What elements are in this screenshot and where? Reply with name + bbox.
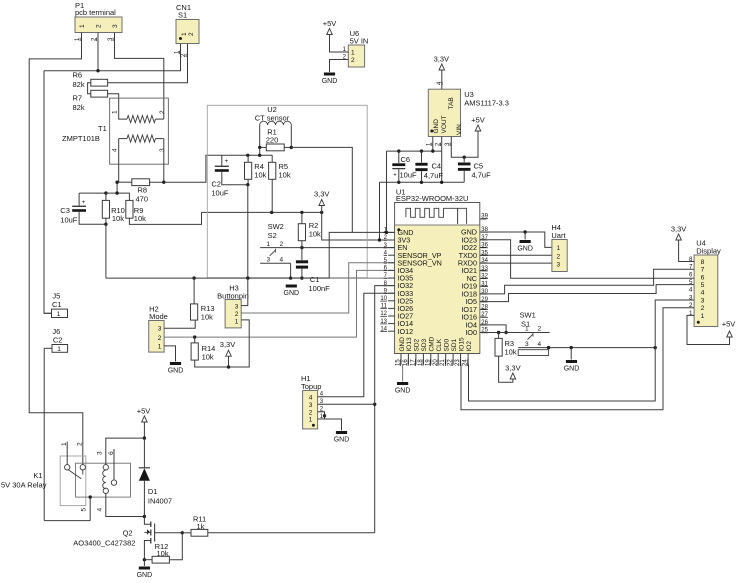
wire R8 left node xyxy=(115,181,131,184)
svg-text:3,3V: 3,3V xyxy=(671,225,686,234)
wire U3 VOUT pin2 down to 3.3V bus xyxy=(441,137,443,183)
wire +5V branch to relay coil pin3 xyxy=(106,438,145,464)
svg-text:10uF: 10uF xyxy=(400,171,418,180)
wire pin38 GND to H4 pin1 xyxy=(480,230,552,247)
power 3.3V arrow mid xyxy=(314,190,329,213)
wire U6 pin2 to GND xyxy=(330,60,349,73)
svg-text:IO0: IO0 xyxy=(465,328,477,337)
svg-text:C2: C2 xyxy=(211,180,221,189)
resistor R14 10k xyxy=(191,320,249,369)
wire P1 pin1 to relay (left vertical) xyxy=(29,42,83,465)
resistor R10 10k xyxy=(102,193,125,224)
wire IO32 vertical to H1 pin3 and R11 xyxy=(373,286,395,533)
svg-text:Display: Display xyxy=(696,247,721,256)
capacitor C3 10uF xyxy=(60,193,106,224)
wire R1 left to sensor node xyxy=(246,147,261,157)
svg-text:4: 4 xyxy=(97,508,104,512)
svg-text:8: 8 xyxy=(701,259,705,266)
connector J5 C1 xyxy=(44,292,68,319)
svg-text:SD2: SD2 xyxy=(414,338,421,351)
svg-text:GND: GND xyxy=(564,366,580,373)
svg-text:1: 1 xyxy=(181,32,188,36)
power +5V arrow right of U4 xyxy=(722,320,736,338)
svg-text:10k: 10k xyxy=(279,171,291,180)
ground below S2 xyxy=(286,285,297,288)
svg-text:10k: 10k xyxy=(254,171,266,180)
svg-text:4: 4 xyxy=(112,148,119,152)
svg-text:4: 4 xyxy=(309,394,313,401)
svg-text:2: 2 xyxy=(557,253,561,260)
ground below U1 xyxy=(397,382,408,385)
svg-text:3: 3 xyxy=(235,303,239,310)
svg-text:C3: C3 xyxy=(60,206,70,215)
wire IO33 to H1 pin4 xyxy=(318,293,395,397)
svg-text:1: 1 xyxy=(351,50,355,57)
svg-text:82k: 82k xyxy=(73,103,85,112)
wire IO5 to U4 pin5 xyxy=(480,285,694,302)
svg-text:TAB: TAB xyxy=(448,97,455,109)
svg-text:7: 7 xyxy=(701,267,705,274)
svg-text:+: + xyxy=(393,173,397,179)
svg-text:5: 5 xyxy=(689,279,693,286)
svg-text:4: 4 xyxy=(538,341,542,348)
svg-text:5: 5 xyxy=(701,282,705,289)
wire U3 GND pin1 to cap bus xyxy=(432,137,434,152)
wire H3 pin3 up to GND line xyxy=(241,278,248,306)
ground below H1 xyxy=(336,431,347,434)
svg-text:1: 1 xyxy=(57,311,61,318)
connector P1 pcb terminal xyxy=(75,1,122,42)
svg-text:3,3V: 3,3V xyxy=(505,364,520,373)
resistor R2 10k xyxy=(298,212,321,247)
wire H1 pins 1-2 to GND xyxy=(318,412,342,431)
connector U4 Display xyxy=(689,239,721,327)
wire U4 pin3 to SW1 net and IO2 xyxy=(469,300,695,401)
svg-text:10k: 10k xyxy=(112,214,124,223)
capacitor C6 10uF xyxy=(392,151,417,182)
wire CN1 pin2 to R6 xyxy=(108,50,188,83)
svg-text:Mode: Mode xyxy=(149,312,168,321)
component outline U2 CT sensor box xyxy=(207,105,367,277)
module U1 ESP32-WROOM-32U xyxy=(395,188,480,354)
connector H3 Buttonpin xyxy=(217,283,249,328)
svg-text:470: 470 xyxy=(136,195,149,204)
wire P1 pin2 net with junction xyxy=(44,42,181,313)
svg-text:10uF: 10uF xyxy=(211,189,229,198)
power 3.3V arrow below R3 xyxy=(505,364,520,380)
svg-text:4,7uF: 4,7uF xyxy=(472,171,492,180)
svg-text:1: 1 xyxy=(309,417,313,424)
svg-text:3: 3 xyxy=(97,451,104,455)
resistor R7 82k xyxy=(73,90,108,112)
wire P1 pin3 to T1 pin2 xyxy=(115,42,164,119)
svg-text:5: 5 xyxy=(80,508,87,512)
wire relay common junction down xyxy=(89,495,92,520)
wire T1 pin3 down xyxy=(163,164,165,182)
svg-text:D1: D1 xyxy=(148,487,158,496)
wire sensor divider node y193 xyxy=(79,191,129,200)
ground below H2 xyxy=(170,362,181,365)
svg-text:1: 1 xyxy=(79,24,86,28)
capacitor C4 4.7uF xyxy=(415,151,443,182)
junction R10 bottom xyxy=(104,223,107,226)
svg-text:5V 30A Relay: 5V 30A Relay xyxy=(1,481,47,490)
svg-text:GND: GND xyxy=(334,437,350,444)
wire IO0 row to SW1 xyxy=(480,320,550,334)
svg-text:SD0: SD0 xyxy=(444,338,451,351)
svg-text:Q2: Q2 xyxy=(123,529,133,538)
svg-text:GND: GND xyxy=(322,78,338,85)
wire U4 pin1 to +5V xyxy=(687,315,730,344)
svg-text:R8: R8 xyxy=(138,186,148,195)
wire IO35 row xyxy=(329,277,394,279)
wire R8 right node to C2 loop xyxy=(150,155,273,184)
svg-text:3: 3 xyxy=(701,297,705,304)
svg-text:S1: S1 xyxy=(178,11,187,20)
wire R11 to IO32 net xyxy=(208,532,375,534)
svg-text:SD3: SD3 xyxy=(421,338,428,351)
power 3.3V arrow near R14 xyxy=(220,340,235,367)
wire H3 pin2 to ESP32 SENSOR_VN xyxy=(241,263,394,313)
svg-text:AO3400_C427382: AO3400_C427382 xyxy=(73,539,135,548)
svg-text:CMD: CMD xyxy=(429,336,436,351)
wire H2 pin2 to ESP32 IO34 xyxy=(164,270,395,338)
wire EN row to ESP32 pin3 xyxy=(300,246,394,249)
svg-text:+5V: +5V xyxy=(722,320,736,329)
svg-text:3: 3 xyxy=(159,148,166,152)
svg-text:3: 3 xyxy=(557,261,561,268)
svg-text:1: 1 xyxy=(57,346,61,353)
power 3.3V arrow above U4 xyxy=(671,225,694,262)
svg-text:K1: K1 xyxy=(33,471,42,480)
svg-text:GND: GND xyxy=(399,337,406,352)
wire U1 pin15 GND stub xyxy=(402,365,404,382)
resistor R9 10k xyxy=(126,200,202,224)
svg-text:3,3V: 3,3V xyxy=(434,55,449,64)
svg-text:10k: 10k xyxy=(505,348,517,357)
wire relay coil pin4 to Q2 drain xyxy=(106,494,145,517)
svg-text:Topup: Topup xyxy=(301,382,321,391)
svg-text:5V IN: 5V IN xyxy=(350,37,369,46)
ground below SW1 xyxy=(566,360,577,363)
svg-text:+5V: +5V xyxy=(471,116,485,125)
svg-text:1: 1 xyxy=(267,241,271,248)
svg-text:IO2: IO2 xyxy=(466,341,473,352)
svg-text:3: 3 xyxy=(267,257,271,264)
svg-text:100nF: 100nF xyxy=(309,284,331,293)
svg-text:IO15: IO15 xyxy=(458,337,465,351)
power +5V arrow U6 xyxy=(323,19,349,52)
wire relay coil pin5 line to J6 net xyxy=(44,520,90,522)
svg-text:6: 6 xyxy=(689,271,693,278)
svg-text:GND: GND xyxy=(137,572,153,578)
svg-text:4: 4 xyxy=(689,287,693,294)
svg-text:GND: GND xyxy=(284,290,300,297)
resistor R3 10k xyxy=(495,333,517,383)
svg-text:2: 2 xyxy=(351,57,355,64)
svg-text:4,7uF: 4,7uF xyxy=(424,171,444,180)
resistor R8 470 xyxy=(132,179,150,204)
switch SW2 S2 xyxy=(260,222,302,264)
svg-text:GND: GND xyxy=(517,246,533,253)
resistor R13 10k xyxy=(191,278,215,321)
wire SW1 GND drop xyxy=(570,348,572,360)
resistor R5 10k xyxy=(269,155,291,212)
svg-text:2: 2 xyxy=(188,32,195,36)
svg-text:3: 3 xyxy=(158,326,162,333)
connector H1 Topup xyxy=(301,374,324,429)
U1 right pins 38-25 and pin 39 xyxy=(458,214,489,338)
capacitor C5 4.7uF xyxy=(458,157,491,182)
svg-text:VIN: VIN xyxy=(456,124,463,135)
connector U6 5V IN xyxy=(343,29,369,67)
svg-text:1: 1 xyxy=(557,245,561,252)
capacitor C2 10uF xyxy=(211,155,247,197)
svg-text:Uart: Uart xyxy=(551,231,566,240)
svg-text:6: 6 xyxy=(701,274,705,281)
inductor U2 CT sensor coil xyxy=(255,105,292,147)
svg-text:+: + xyxy=(82,199,86,206)
svg-text:3,3V: 3,3V xyxy=(314,190,329,199)
wire IO23 to U4 pin6 xyxy=(480,240,694,279)
svg-text:10k: 10k xyxy=(134,214,146,223)
wire H2 pin3 to R13 xyxy=(164,320,195,328)
power +5V arrow right of U3 xyxy=(471,116,485,132)
connector H2 Mode xyxy=(149,305,168,353)
svg-text:10uF: 10uF xyxy=(60,216,78,225)
svg-text:CLK: CLK xyxy=(436,338,443,351)
switch SW1 S1 xyxy=(518,311,657,356)
transformer T1 ZMPT101B xyxy=(62,98,168,164)
svg-text:2: 2 xyxy=(280,241,284,248)
wire R6-R7 left bridge xyxy=(88,83,91,94)
svg-text:1: 1 xyxy=(525,326,529,333)
svg-text:R7: R7 xyxy=(73,94,83,103)
svg-text:1: 1 xyxy=(112,110,119,114)
wire H1 pin3 stub xyxy=(318,403,375,405)
resistor R1 220 xyxy=(258,128,293,151)
svg-text:7: 7 xyxy=(689,264,693,271)
svg-text:C1: C1 xyxy=(310,275,320,284)
svg-text:1: 1 xyxy=(158,344,162,351)
svg-text:Buttonpin: Buttonpin xyxy=(217,291,249,300)
svg-text:10k: 10k xyxy=(309,230,321,239)
connector J6 C2 xyxy=(44,327,67,353)
capacitor C1 100nF xyxy=(296,248,330,293)
svg-text:S2: S2 xyxy=(268,231,277,240)
power +5V arrow above D1 xyxy=(137,407,151,440)
svg-text:C4: C4 xyxy=(432,162,442,171)
svg-text:C1: C1 xyxy=(52,300,62,309)
svg-text:SW1: SW1 xyxy=(520,311,536,320)
wire 3.3V rail y212 xyxy=(202,211,324,214)
svg-text:IN4007: IN4007 xyxy=(148,497,172,506)
svg-text:3: 3 xyxy=(309,402,313,409)
svg-text:2: 2 xyxy=(158,335,162,342)
wire TXD0 to H4 pin2 xyxy=(480,254,552,256)
svg-text:220: 220 xyxy=(266,136,279,145)
wire R7 to T1 pin1 xyxy=(108,94,119,98)
wire C2/R4 node down to GND line xyxy=(247,185,249,278)
svg-text:1: 1 xyxy=(701,313,705,320)
connector CN1 S1 xyxy=(174,3,199,57)
svg-text:1: 1 xyxy=(235,318,239,325)
wire S2 to GND xyxy=(289,263,292,280)
wire RXD0 to H4 pin3 xyxy=(480,262,552,264)
svg-text:3: 3 xyxy=(525,341,529,348)
resistor R12 10k xyxy=(144,533,182,563)
wire GND net long line y278 xyxy=(106,231,395,280)
resistor R4 10k xyxy=(245,155,267,186)
svg-text:GND: GND xyxy=(168,368,184,375)
svg-text:2: 2 xyxy=(538,326,542,333)
svg-text:GND: GND xyxy=(433,119,440,134)
svg-text:R6: R6 xyxy=(73,71,83,80)
wire H2 pin1 to GND xyxy=(164,346,175,362)
svg-text:+: + xyxy=(225,158,229,165)
wire GND cap bus y151 xyxy=(387,149,442,232)
power 3.3V arrow above U3 xyxy=(434,55,449,90)
svg-text:AMS1117-3.3: AMS1117-3.3 xyxy=(464,99,509,108)
svg-text:C5: C5 xyxy=(474,162,484,171)
svg-text:SD1: SD1 xyxy=(451,338,458,351)
svg-text:2: 2 xyxy=(96,24,103,28)
U1 left pins 1-14 xyxy=(380,228,442,336)
svg-text:GND: GND xyxy=(395,388,411,395)
wire U4 pin2 to IO15 xyxy=(461,308,694,410)
svg-text:T1: T1 xyxy=(98,124,107,133)
connector H4 Uart xyxy=(551,223,567,272)
svg-text:2: 2 xyxy=(77,442,84,446)
ground below Q2 xyxy=(137,560,153,579)
svg-text:pcb terminal: pcb terminal xyxy=(75,8,116,17)
ground near H4 xyxy=(520,240,531,243)
wire R1 right to GND row xyxy=(291,147,352,232)
svg-text:IO13: IO13 xyxy=(406,337,413,351)
svg-text:+5V: +5V xyxy=(323,19,337,28)
wire IO18 to U4 pin7 xyxy=(480,269,694,294)
resistor R11 1k xyxy=(182,515,208,537)
svg-text:C6: C6 xyxy=(401,155,411,164)
svg-text:2: 2 xyxy=(309,409,313,416)
resistor R6 82k xyxy=(73,71,108,90)
wire J6 down to relay coil xyxy=(43,348,45,520)
svg-text:4: 4 xyxy=(701,290,705,297)
wire T1 pin4 down to R8 node xyxy=(118,164,120,182)
svg-text:C2: C2 xyxy=(53,336,63,345)
svg-text:3: 3 xyxy=(112,24,119,28)
svg-text:ESP32-WROOM-32U: ESP32-WROOM-32U xyxy=(396,194,469,203)
wire GND net down from R10 xyxy=(105,224,107,278)
svg-text:4: 4 xyxy=(280,257,284,264)
svg-text:ZMPT101B: ZMPT101B xyxy=(62,134,100,143)
svg-text:IO12: IO12 xyxy=(398,327,414,336)
svg-text:82k: 82k xyxy=(73,80,85,89)
regulator U3 AMS1117-3.3 xyxy=(427,89,509,146)
svg-text:2: 2 xyxy=(701,305,705,312)
wire 3.3V cap bus y182 xyxy=(378,181,464,242)
diode D1 IN4007 xyxy=(139,438,172,518)
svg-text:SW2: SW2 xyxy=(268,222,284,231)
svg-text:2: 2 xyxy=(159,110,166,114)
transistor Q2 AO3400_C427382 xyxy=(73,517,184,562)
svg-text:3,3V: 3,3V xyxy=(220,340,235,349)
U1 bottom pins 15-24 xyxy=(396,336,473,366)
relay K1 5V 30A Relay xyxy=(1,442,131,512)
svg-text:+5V: +5V xyxy=(137,407,151,416)
svg-text:VOUT: VOUT xyxy=(441,115,448,133)
ground below U6 xyxy=(324,73,335,76)
wire 3.3V to ESP32 3V3 xyxy=(322,212,395,240)
wire IO4 to SW1 row xyxy=(480,325,508,334)
svg-text:10k: 10k xyxy=(201,313,213,322)
wire U3 VIN pin3 to +5V / C5 xyxy=(451,131,478,159)
svg-text:2: 2 xyxy=(235,311,239,318)
svg-text:10k: 10k xyxy=(202,353,214,362)
